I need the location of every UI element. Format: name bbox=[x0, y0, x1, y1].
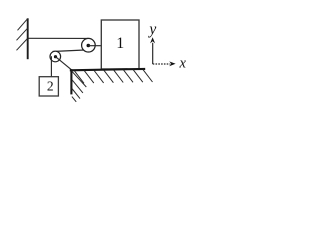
ground hatching along left edge bbox=[72, 71, 86, 102]
svg-text:2: 2 bbox=[47, 78, 54, 93]
svg-text:y: y bbox=[147, 21, 156, 38]
y axis arrowhead bbox=[150, 37, 155, 43]
coordinate axes: x axis shaft (appears dashed in original) bbox=[153, 63, 171, 65]
rope between pulleys (lower strand) bbox=[53, 50, 85, 52]
wall (vertical fixed support at left) bbox=[27, 18, 29, 59]
table/ground top surface (thick line) bbox=[70, 69, 145, 70]
fixed pulley (small, anchored to table corner) bbox=[50, 51, 61, 62]
svg-text:x: x bbox=[178, 56, 186, 72]
ground hatching below surface bbox=[75, 70, 153, 84]
wall hatch 2 bbox=[17, 28, 28, 40]
table/ground left edge (thick line) bbox=[70, 69, 72, 94]
coordinate axes: y axis shaft bbox=[152, 43, 154, 64]
block 1 bbox=[101, 20, 139, 69]
wall hatch 1 bbox=[18, 19, 28, 31]
link from small pulley axle to table corner bbox=[55, 57, 71, 70]
link from movable pulley axle to block 1 bbox=[88, 45, 101, 47]
svg-text:1: 1 bbox=[116, 35, 124, 52]
rope from wall to top of movable pulley bbox=[29, 37, 89, 39]
block 2 bbox=[39, 77, 58, 96]
movable pulley (large, attached to block 1) bbox=[82, 38, 96, 52]
x axis arrowhead bbox=[169, 61, 175, 66]
wall hatch 3 bbox=[17, 39, 28, 51]
rope from small pulley down to block 2 bbox=[50, 56, 52, 76]
